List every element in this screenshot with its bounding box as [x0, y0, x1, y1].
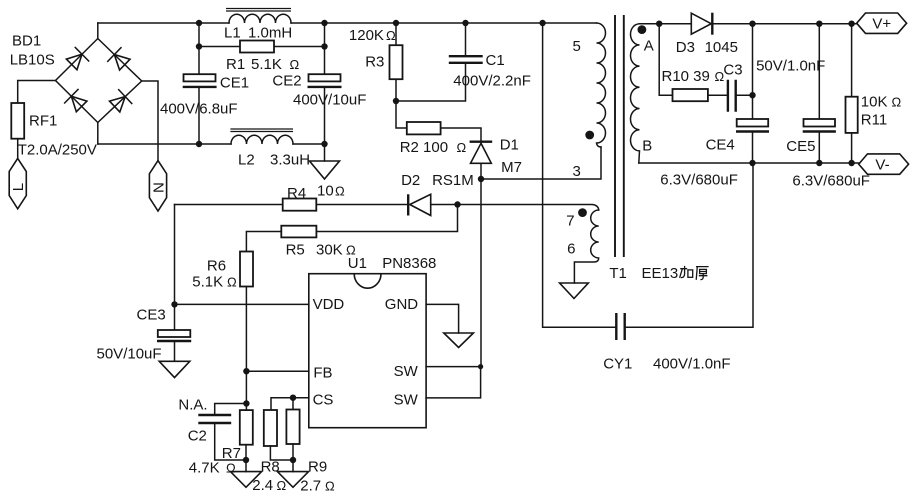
- svg-text:1.0mH: 1.0mH: [248, 25, 292, 42]
- svg-text:D3: D3: [676, 39, 695, 56]
- resistor R7: [240, 410, 253, 445]
- diode D2 RS1M: [407, 194, 409, 215]
- wire D2 anode to aux: [431, 205, 599, 211]
- wire VDD row: [175, 303, 309, 305]
- wire R8 R9 bottoms: [270, 444, 293, 472]
- svg-text:CE5: CE5: [786, 138, 815, 155]
- svg-text:CY1: CY1: [603, 356, 632, 373]
- svg-text:GND: GND: [385, 296, 419, 313]
- svg-text:L1: L1: [224, 25, 241, 42]
- diode D3 1045: [691, 13, 711, 34]
- wire bridge top stub: [97, 23, 99, 39]
- fuse RF1: [11, 103, 24, 139]
- node bottom rail CE1: [196, 141, 202, 147]
- text jia: [680, 266, 693, 278]
- node C2 top: [243, 400, 249, 406]
- svg-text:R10 39: R10 39: [662, 68, 710, 85]
- svg-text:RF1: RF1: [29, 113, 57, 130]
- wire CE1 column: [198, 23, 200, 144]
- capacitor CE5: [818, 24, 820, 163]
- polarity dot aux: [578, 208, 587, 217]
- wire SW1 stub: [426, 366, 481, 368]
- svg-text:400V/1.0nF: 400V/1.0nF: [653, 356, 731, 373]
- node R11 bottom: [848, 160, 854, 166]
- svg-text:6.3V/680uF: 6.3V/680uF: [660, 172, 738, 189]
- wire R5 feed: [316, 205, 457, 232]
- svg-text:120K: 120K: [349, 27, 384, 44]
- node CE4 bottom: [749, 160, 755, 166]
- capacitor CE2: [309, 74, 341, 81]
- svg-text:D1: D1: [500, 137, 519, 154]
- capacitor C2 N.A.: [215, 404, 247, 461]
- wire D1 to node: [480, 163, 482, 179]
- resistor R1: [199, 46, 325, 48]
- svg-text:CE1: CE1: [220, 75, 249, 92]
- svg-text:Ω: Ω: [227, 275, 237, 290]
- ground right: [277, 472, 308, 488]
- svg-text:4.7K: 4.7K: [189, 460, 220, 477]
- resistor R3: [395, 23, 397, 101]
- wire primary bulk vertical: [543, 23, 616, 327]
- svg-text:Ω: Ω: [892, 95, 902, 110]
- capacitor C3: [728, 80, 736, 112]
- svg-text:7: 7: [566, 213, 574, 230]
- svg-text:LB10S: LB10S: [10, 52, 55, 69]
- transformer T1 secondary winding A-B: [631, 24, 640, 163]
- resistor R9: [286, 410, 299, 445]
- svg-text:C1: C1: [486, 52, 505, 69]
- svg-text:CE3: CE3: [137, 307, 166, 324]
- svg-text:PN8368: PN8368: [382, 255, 436, 272]
- resistor R2: [396, 101, 481, 141]
- svg-text:U1: U1: [348, 255, 367, 272]
- wire FB stub: [246, 370, 308, 372]
- svg-text:50V/10uF: 50V/10uF: [97, 346, 162, 363]
- wire bridge left to fuse: [18, 81, 56, 104]
- capacitor CE4: [737, 119, 769, 127]
- node R9 ground: [290, 457, 296, 463]
- svg-text:D2: D2: [401, 172, 420, 189]
- svg-text:5.1K: 5.1K: [251, 56, 282, 73]
- svg-text:R6: R6: [207, 258, 226, 275]
- svg-text:C3: C3: [723, 62, 742, 79]
- svg-text:A: A: [644, 38, 654, 55]
- node R3 bottom: [393, 98, 399, 104]
- svg-text:CE2: CE2: [272, 73, 301, 90]
- svg-text:L2: L2: [238, 152, 255, 169]
- svg-text:BD1: BD1: [12, 33, 41, 50]
- wire SW2 stub: [426, 367, 481, 398]
- svg-text:CS: CS: [313, 392, 334, 409]
- wire bottom rail left: [98, 143, 231, 145]
- svg-text:T2.0A/250V: T2.0A/250V: [18, 142, 97, 159]
- node R10 tap: [656, 21, 662, 27]
- node D1 anode: [478, 176, 484, 182]
- wire CY1 right: [626, 163, 753, 327]
- polarity dot primary: [585, 131, 594, 140]
- resistor R4: [175, 204, 408, 206]
- capacitor CE3: [174, 304, 176, 361]
- node CS R9: [290, 395, 296, 401]
- svg-text:R3: R3: [365, 54, 384, 71]
- svg-text:3: 3: [573, 163, 581, 180]
- svg-text:50V/1.0nF: 50V/1.0nF: [756, 58, 825, 75]
- diode D1 M7: [470, 140, 493, 142]
- wire CE2 column: [324, 23, 326, 161]
- svg-text:R4: R4: [287, 185, 306, 202]
- polarity dot secondary: [638, 25, 647, 34]
- resistor R10: [659, 24, 726, 96]
- svg-text:FB: FB: [313, 365, 332, 382]
- svg-text:VDD: VDD: [313, 296, 345, 313]
- svg-text:Ω: Ω: [277, 478, 287, 493]
- svg-text:10: 10: [317, 183, 334, 200]
- svg-text:400V/6.8uF: 400V/6.8uF: [160, 101, 238, 118]
- svg-text:T1: T1: [609, 265, 627, 282]
- resistor R8: [264, 410, 277, 446]
- ground IC GND: [444, 333, 474, 348]
- wire SW vertical: [480, 179, 482, 367]
- bridge diode lower-left: [71, 96, 87, 112]
- svg-text:30K: 30K: [316, 242, 343, 259]
- node CE5 top: [816, 21, 822, 27]
- node D2 anode: [454, 201, 460, 207]
- wire top rail mid: [291, 22, 597, 24]
- svg-text:6: 6: [567, 241, 575, 258]
- wire secondary top rail: [640, 23, 857, 25]
- node R11 top: [848, 21, 854, 27]
- svg-text:3.3uH: 3.3uH: [270, 152, 310, 169]
- svg-text:5.1K: 5.1K: [192, 274, 223, 291]
- resistor R5: [281, 226, 316, 238]
- wire R6 to FB and R7: [245, 287, 247, 411]
- ground primary filter: [310, 161, 340, 179]
- text hou: [696, 267, 709, 280]
- terminal N: [149, 161, 166, 211]
- node R1 left: [196, 43, 202, 49]
- svg-text:Ω: Ω: [290, 57, 300, 72]
- wire bridge right to N: [142, 81, 158, 161]
- wire C3 right: [737, 94, 753, 96]
- ground aux winding: [560, 283, 589, 299]
- resistor R6: [240, 252, 253, 287]
- node SW: [478, 364, 483, 369]
- svg-text:400V/10uF: 400V/10uF: [293, 92, 366, 109]
- svg-text:10K: 10K: [861, 94, 888, 111]
- svg-text:M7: M7: [501, 159, 522, 176]
- svg-text:V+: V+: [872, 16, 891, 33]
- svg-text:R1: R1: [226, 56, 245, 73]
- svg-text:Ω: Ω: [386, 28, 396, 43]
- node top rail CY1: [539, 20, 545, 26]
- svg-text:400V/2.2nF: 400V/2.2nF: [453, 73, 531, 90]
- wire bottom rail right: [293, 143, 325, 145]
- capacitor CE1: [184, 74, 216, 81]
- node C3 CE4: [749, 92, 755, 98]
- node R3 top: [393, 20, 399, 26]
- transformer T1 primary winding pins 5-3: [597, 23, 606, 147]
- node C1 top: [462, 20, 468, 26]
- transformer core: [615, 15, 624, 257]
- svg-text:B: B: [642, 138, 652, 155]
- svg-text:N: N: [151, 182, 168, 193]
- svg-text:Ω: Ω: [335, 184, 345, 199]
- inductor L2: [231, 135, 293, 144]
- svg-text:R8: R8: [261, 459, 280, 476]
- node top rail CE2: [321, 20, 327, 26]
- svg-text:2.7: 2.7: [300, 478, 321, 495]
- node R7 ground: [243, 457, 249, 463]
- svg-text:R7: R7: [222, 445, 241, 462]
- node FB: [243, 368, 249, 374]
- node bottom rail CE2: [321, 141, 327, 147]
- core lines L2: [230, 129, 293, 132]
- svg-text:1045: 1045: [705, 39, 738, 56]
- wire R9 top: [292, 398, 294, 410]
- capacitor CY1: [616, 313, 624, 340]
- svg-text:L: L: [10, 183, 27, 191]
- wire GND stub: [426, 304, 459, 333]
- terminal V-: [859, 154, 909, 174]
- svg-text:R5: R5: [286, 242, 305, 259]
- svg-text:Ω: Ω: [325, 479, 335, 494]
- wire secondary bottom rail: [639, 162, 859, 164]
- node D3 out: [749, 21, 755, 27]
- ground left: [230, 472, 261, 488]
- svg-text:R11: R11: [861, 112, 887, 129]
- bridge diode upper-right: [114, 55, 130, 70]
- bridge diode upper-left: [66, 54, 82, 70]
- svg-text:RS1M: RS1M: [432, 172, 474, 189]
- core lines L1: [226, 9, 291, 12]
- IC U1 PN8368: [309, 274, 426, 428]
- terminal L: [9, 158, 26, 208]
- svg-text:EE13: EE13: [642, 265, 679, 282]
- svg-text:R2 100: R2 100: [400, 139, 448, 156]
- wire R5 left to R6: [246, 232, 281, 252]
- svg-text:R9: R9: [308, 459, 327, 476]
- wire VDD feed corner: [174, 205, 176, 305]
- transformer T1 aux winding pins 7-6: [574, 210, 598, 283]
- wire to transformer pin 3: [481, 147, 601, 179]
- wire R7 bottom: [245, 445, 247, 472]
- svg-text:C2: C2: [188, 428, 207, 445]
- bridge rectifier BD1 diamond: [56, 39, 142, 123]
- inductor L1: [229, 14, 291, 23]
- svg-text:V-: V-: [875, 157, 889, 174]
- bridge diode lower-right: [110, 97, 126, 112]
- node top rail CE1: [196, 20, 202, 26]
- svg-text:N.A.: N.A.: [178, 397, 207, 414]
- svg-text:SW: SW: [394, 363, 419, 380]
- wire top rail left: [98, 22, 229, 24]
- node VDD: [171, 301, 177, 307]
- resistor R11: [851, 24, 853, 163]
- wire bridge bottom stub: [97, 123, 99, 145]
- wire fuse to L terminal: [17, 139, 19, 159]
- svg-text:Ω: Ω: [457, 140, 467, 155]
- capacitor C1: [396, 23, 466, 101]
- wire CE4 column: [752, 24, 754, 163]
- wire CS stub: [271, 398, 309, 410]
- svg-text:6.3V/680uF: 6.3V/680uF: [792, 173, 870, 190]
- svg-text:5: 5: [573, 38, 581, 55]
- ground CE3: [159, 361, 190, 377]
- node CE5 bottom: [816, 160, 822, 166]
- node R1 right: [321, 43, 327, 49]
- svg-text:CE4: CE4: [706, 137, 735, 154]
- terminal V+: [857, 13, 907, 33]
- svg-text:2.4: 2.4: [252, 477, 273, 494]
- svg-text:SW: SW: [394, 392, 419, 409]
